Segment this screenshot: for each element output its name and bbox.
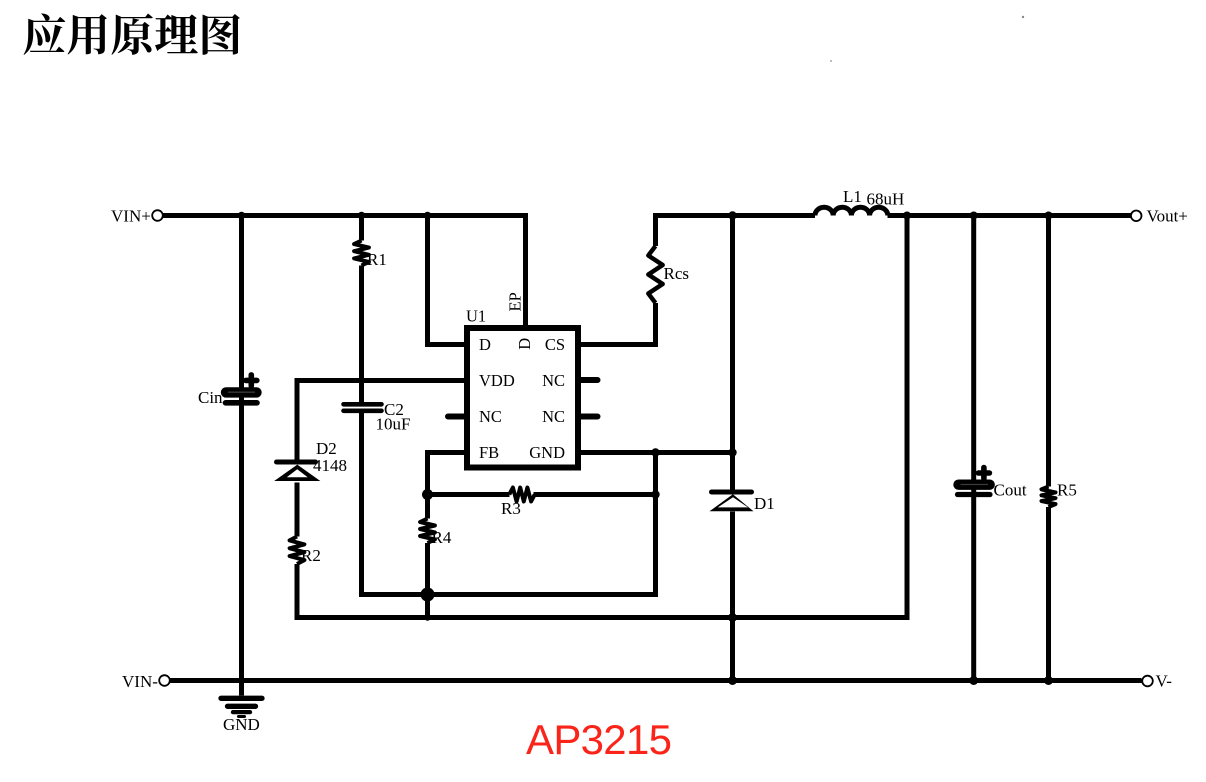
svg-text:D: D [479, 335, 491, 354]
svg-text:D1: D1 [754, 494, 775, 513]
svg-text:Rcs: Rcs [664, 264, 690, 283]
svg-text:FB: FB [479, 443, 499, 462]
svg-text:Cout: Cout [994, 481, 1027, 500]
svg-text:NC: NC [479, 407, 502, 426]
svg-text:D: D [515, 338, 534, 350]
svg-text:GND: GND [529, 443, 565, 462]
svg-text:R2: R2 [301, 546, 321, 565]
svg-text:CS: CS [545, 335, 565, 354]
svg-text:EP: EP [506, 292, 525, 311]
svg-text:AP3215: AP3215 [526, 716, 671, 763]
svg-text:NC: NC [542, 407, 565, 426]
svg-text:4148: 4148 [313, 456, 347, 475]
svg-text:GND: GND [223, 715, 260, 734]
svg-text:R5: R5 [1057, 481, 1077, 500]
svg-text:V-: V- [1156, 672, 1173, 691]
svg-text:10uF: 10uF [376, 415, 411, 434]
svg-text:VDD: VDD [479, 371, 515, 390]
svg-text:68uH: 68uH [867, 190, 905, 209]
svg-text:VIN+: VIN+ [111, 207, 151, 226]
svg-text:U1: U1 [466, 307, 486, 326]
svg-text:VIN-: VIN- [122, 672, 158, 691]
svg-text:R3: R3 [501, 499, 521, 518]
svg-text:R1: R1 [367, 250, 387, 269]
svg-text:Cin: Cin [198, 388, 223, 407]
svg-text:Vout+: Vout+ [1147, 207, 1188, 226]
svg-text:L1: L1 [843, 187, 862, 206]
svg-text:R4: R4 [432, 528, 452, 547]
svg-text:NC: NC [542, 371, 565, 390]
